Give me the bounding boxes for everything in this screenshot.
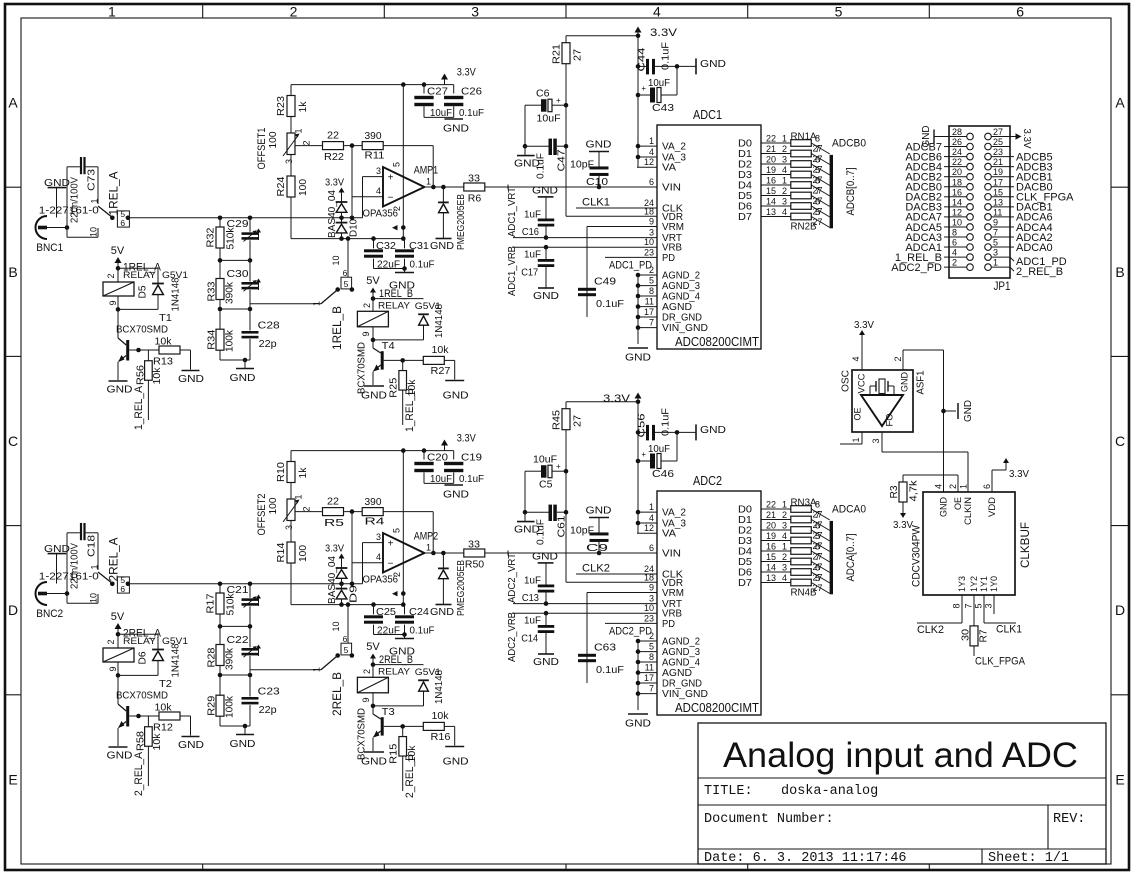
- svg-text:5: 5: [344, 645, 349, 655]
- svg-text:10: 10: [89, 227, 99, 237]
- svg-text:9: 9: [649, 583, 654, 593]
- svg-text:3: 3: [871, 438, 881, 443]
- svg-text:220n/100V: 220n/100V: [69, 177, 81, 223]
- svg-text:10uF: 10uF: [648, 443, 670, 455]
- svg-text:6: 6: [649, 177, 654, 187]
- svg-text:22: 22: [327, 496, 339, 508]
- svg-text:CLK2: CLK2: [582, 563, 610, 575]
- svg-text:C24: C24: [409, 606, 429, 618]
- svg-text:4: 4: [782, 573, 787, 583]
- svg-text:7: 7: [815, 552, 820, 562]
- svg-text:RN4B: RN4B: [791, 587, 817, 599]
- svg-text:390: 390: [365, 496, 382, 508]
- svg-text:1k: 1k: [297, 101, 309, 113]
- svg-text:1N4148: 1N4148: [170, 277, 182, 311]
- svg-text:33: 33: [468, 539, 480, 551]
- svg-text:C32: C32: [376, 240, 396, 252]
- svg-text:VA: VA: [662, 162, 676, 174]
- svg-text:CLKBUF: CLKBUF: [1020, 522, 1032, 568]
- svg-text:1: 1: [782, 542, 787, 552]
- svg-text:7: 7: [964, 603, 974, 608]
- svg-text:23: 23: [993, 147, 1003, 157]
- svg-text:+: +: [388, 173, 394, 184]
- svg-text:T1: T1: [159, 312, 172, 324]
- svg-text:390k: 390k: [224, 647, 236, 670]
- svg-text:ADC1_VRB: ADC1_VRB: [506, 246, 518, 296]
- svg-text:ADC2: ADC2: [693, 473, 722, 488]
- svg-text:6: 6: [649, 543, 654, 553]
- svg-text:6: 6: [982, 484, 992, 489]
- svg-text:0.1uF: 0.1uF: [660, 408, 672, 436]
- svg-text:100: 100: [297, 545, 309, 562]
- svg-text:5V: 5V: [111, 611, 125, 623]
- svg-text:RELAY: RELAY: [378, 666, 411, 677]
- svg-text:R12: R12: [153, 722, 173, 734]
- svg-text:1N4148: 1N4148: [170, 643, 182, 677]
- svg-text:3.3V: 3.3V: [325, 543, 344, 555]
- svg-text:CLK2: CLK2: [917, 624, 944, 636]
- svg-text:2: 2: [290, 4, 298, 20]
- svg-text:18: 18: [644, 206, 654, 216]
- svg-text:R34: R34: [206, 330, 218, 350]
- svg-text:ADC1_PD: ADC1_PD: [609, 260, 652, 272]
- svg-text:9: 9: [649, 217, 654, 227]
- svg-text:+: +: [641, 450, 646, 459]
- svg-text:6: 6: [343, 268, 348, 278]
- svg-text:1_REL_B: 1_REL_B: [404, 388, 416, 432]
- svg-text:14: 14: [952, 197, 962, 207]
- svg-text:A: A: [8, 95, 18, 111]
- svg-text:GND: GND: [230, 372, 256, 384]
- svg-text:2: 2: [893, 356, 903, 361]
- svg-text:2REL_A: 2REL_A: [107, 538, 121, 582]
- svg-text:0.1uF: 0.1uF: [459, 107, 484, 119]
- svg-text:10: 10: [89, 593, 99, 603]
- svg-text:10k: 10k: [432, 344, 450, 356]
- svg-text:12: 12: [952, 207, 962, 217]
- svg-text:1uF: 1uF: [524, 249, 541, 261]
- svg-text:1REL_A: 1REL_A: [107, 172, 121, 216]
- svg-text:7: 7: [993, 228, 998, 238]
- svg-text:5: 5: [649, 276, 654, 286]
- svg-text:3: 3: [782, 521, 787, 531]
- svg-text:4: 4: [649, 147, 654, 157]
- svg-text:GND: GND: [443, 123, 469, 135]
- svg-text:BAS40_04: BAS40_04: [326, 556, 338, 604]
- svg-text:4: 4: [376, 552, 381, 562]
- svg-text:8: 8: [649, 652, 654, 662]
- svg-text:−: −: [388, 559, 394, 570]
- svg-text:C5: C5: [539, 479, 553, 491]
- svg-text:4: 4: [782, 531, 787, 541]
- svg-text:ADCA0: ADCA0: [832, 504, 866, 516]
- svg-text:T2: T2: [159, 678, 172, 690]
- svg-text:10: 10: [331, 256, 341, 266]
- svg-text:A: A: [1115, 95, 1125, 111]
- svg-text:GND: GND: [962, 400, 974, 422]
- svg-text:27: 27: [572, 415, 584, 427]
- svg-text:2: 2: [952, 258, 957, 268]
- svg-text:Document Number:: Document Number:: [704, 812, 834, 827]
- svg-text:2: 2: [106, 273, 116, 278]
- svg-text:3: 3: [649, 594, 654, 604]
- svg-text:13: 13: [766, 573, 776, 583]
- svg-text:15: 15: [766, 552, 776, 562]
- svg-text:BCX70SMD: BCX70SMD: [116, 324, 168, 336]
- svg-text:7: 7: [649, 684, 654, 694]
- svg-text:C23: C23: [258, 686, 280, 698]
- svg-text:BNC2: BNC2: [36, 608, 63, 620]
- svg-text:1: 1: [649, 502, 654, 512]
- svg-text:10pF: 10pF: [570, 159, 594, 171]
- svg-text:6: 6: [815, 155, 820, 165]
- svg-text:16: 16: [766, 542, 776, 552]
- svg-text:1uF: 1uF: [524, 209, 541, 221]
- svg-text:18: 18: [644, 572, 654, 582]
- svg-text:3: 3: [649, 228, 654, 238]
- svg-text:R28: R28: [206, 647, 218, 667]
- svg-text:28: 28: [952, 127, 962, 137]
- svg-text:3.3V: 3.3V: [457, 66, 477, 78]
- svg-text:10uF: 10uF: [430, 107, 452, 119]
- svg-text:C49: C49: [594, 276, 616, 288]
- svg-text:BAS40_04: BAS40_04: [326, 190, 338, 238]
- svg-text:16: 16: [766, 176, 776, 186]
- svg-text:22p: 22p: [259, 338, 277, 350]
- svg-text:6: 6: [120, 584, 125, 594]
- svg-text:5: 5: [815, 165, 820, 175]
- svg-text:R13: R13: [153, 356, 173, 368]
- svg-text:390: 390: [365, 130, 382, 142]
- svg-text:3: 3: [376, 166, 381, 176]
- svg-text:VIN_GND: VIN_GND: [662, 322, 708, 334]
- svg-text:23: 23: [644, 613, 654, 623]
- svg-text:22uF: 22uF: [377, 259, 400, 271]
- svg-text:19: 19: [993, 167, 1003, 177]
- svg-text:2: 2: [362, 669, 372, 674]
- svg-text:22: 22: [952, 157, 962, 167]
- svg-text:6: 6: [120, 218, 125, 228]
- svg-text:30: 30: [960, 629, 972, 641]
- svg-text:C28: C28: [258, 320, 280, 332]
- svg-text:GND: GND: [443, 389, 469, 401]
- svg-text:19: 19: [766, 531, 776, 541]
- svg-text:PMEG2005EB: PMEG2005EB: [455, 194, 467, 250]
- svg-text:2_REL_B: 2_REL_B: [404, 754, 416, 798]
- svg-text:3: 3: [984, 603, 994, 608]
- svg-text:0.1uF: 0.1uF: [535, 153, 547, 179]
- svg-text:17: 17: [993, 177, 1003, 187]
- svg-text:R29: R29: [206, 696, 218, 716]
- svg-text:2: 2: [302, 506, 312, 511]
- svg-text:C19: C19: [461, 452, 482, 464]
- svg-text:1Y3: 1Y3: [957, 576, 968, 592]
- svg-text:17: 17: [644, 673, 654, 683]
- svg-text:3: 3: [376, 532, 381, 542]
- svg-text:6: 6: [343, 634, 348, 644]
- svg-text:9: 9: [108, 666, 118, 671]
- svg-text:D: D: [1115, 602, 1125, 618]
- svg-text:GND: GND: [107, 384, 133, 396]
- svg-text:RN3A: RN3A: [791, 497, 817, 509]
- svg-text:2: 2: [782, 510, 787, 520]
- svg-text:C43: C43: [652, 102, 674, 114]
- svg-text:510k: 510k: [225, 227, 237, 250]
- svg-text:0.1uF: 0.1uF: [410, 625, 435, 637]
- svg-text:R7: R7: [978, 629, 990, 642]
- svg-text:5: 5: [835, 4, 843, 20]
- svg-text:CLKIN: CLKIN: [963, 497, 974, 525]
- svg-text:21: 21: [993, 157, 1003, 167]
- svg-text:2REL_B: 2REL_B: [330, 672, 344, 716]
- svg-text:C14: C14: [521, 632, 538, 644]
- svg-text:6: 6: [1016, 4, 1024, 20]
- svg-text:12: 12: [644, 523, 654, 533]
- svg-text:R4: R4: [365, 516, 385, 528]
- svg-text:3.3V: 3.3V: [325, 177, 344, 189]
- svg-text:14: 14: [766, 197, 776, 207]
- svg-text:RELAY: RELAY: [123, 270, 157, 281]
- svg-text:10uF: 10uF: [648, 77, 670, 89]
- svg-text:R24: R24: [275, 176, 287, 196]
- svg-text:100k: 100k: [224, 329, 236, 352]
- svg-text:18: 18: [952, 177, 962, 187]
- svg-text:27: 27: [572, 49, 584, 61]
- svg-text:PMEG2005EB: PMEG2005EB: [455, 560, 467, 616]
- svg-text:R27: R27: [431, 365, 451, 377]
- svg-text:GND: GND: [939, 497, 950, 517]
- svg-text:3: 3: [471, 4, 479, 20]
- svg-text:ADCA0: ADCA0: [1016, 242, 1053, 254]
- svg-text:4: 4: [782, 207, 787, 217]
- svg-text:33: 33: [468, 173, 480, 185]
- svg-text:3.3V: 3.3V: [457, 432, 477, 444]
- svg-text:B: B: [1115, 264, 1124, 280]
- svg-text:PD: PD: [662, 252, 675, 264]
- svg-text:RELAY: RELAY: [378, 300, 411, 311]
- svg-text:1: 1: [782, 500, 787, 510]
- svg-text:C46: C46: [652, 468, 674, 480]
- svg-text:22: 22: [766, 134, 776, 144]
- svg-text:C73: C73: [86, 169, 98, 191]
- svg-text:GND: GND: [361, 756, 387, 768]
- svg-text:GND: GND: [361, 390, 387, 402]
- svg-text:GND: GND: [700, 58, 726, 70]
- svg-text:8: 8: [952, 603, 962, 608]
- svg-text:C27: C27: [427, 86, 448, 98]
- svg-text:1: 1: [294, 494, 304, 499]
- svg-text:100: 100: [267, 131, 279, 148]
- svg-text:BCX70SMD: BCX70SMD: [116, 690, 168, 702]
- svg-text:C18: C18: [86, 535, 98, 557]
- svg-text:3.3V: 3.3V: [650, 27, 678, 39]
- svg-text:2: 2: [302, 140, 312, 145]
- svg-text:4: 4: [952, 248, 957, 258]
- svg-text:5: 5: [344, 279, 349, 289]
- svg-text:2: 2: [948, 484, 958, 489]
- svg-text:5: 5: [815, 573, 820, 583]
- svg-text:6: 6: [815, 197, 820, 207]
- svg-text:D6: D6: [137, 651, 149, 664]
- svg-text:10k: 10k: [151, 733, 163, 751]
- svg-text:R45: R45: [551, 410, 563, 430]
- svg-text:D9: D9: [348, 585, 360, 603]
- svg-text:GND: GND: [625, 352, 651, 364]
- svg-text:JP1: JP1: [994, 279, 1011, 293]
- svg-text:GND: GND: [443, 755, 469, 767]
- svg-text:4: 4: [376, 186, 381, 196]
- svg-text:10k: 10k: [432, 710, 450, 722]
- svg-text:R32: R32: [205, 227, 217, 247]
- svg-text:1: 1: [782, 134, 787, 144]
- svg-text:ADC1: ADC1: [693, 107, 722, 122]
- svg-text:4: 4: [934, 484, 944, 489]
- svg-text:GND: GND: [625, 718, 651, 730]
- svg-text:1: 1: [993, 258, 998, 268]
- svg-text:1N4148: 1N4148: [433, 304, 445, 338]
- svg-text:C: C: [1115, 433, 1125, 449]
- svg-text:5: 5: [392, 162, 402, 167]
- svg-text:11: 11: [993, 207, 1002, 217]
- svg-text:doska-analog: doska-analog: [781, 784, 878, 799]
- svg-text:+: +: [556, 96, 561, 105]
- svg-text:0.1uF: 0.1uF: [596, 664, 624, 676]
- svg-text:T4: T4: [382, 340, 395, 352]
- svg-text:2: 2: [782, 144, 787, 154]
- svg-text:R10: R10: [275, 462, 287, 482]
- svg-text:1: 1: [649, 136, 654, 146]
- svg-text:8: 8: [952, 228, 957, 238]
- svg-text:−: −: [388, 193, 394, 204]
- svg-text:9: 9: [361, 331, 371, 336]
- svg-text:9: 9: [108, 300, 118, 305]
- svg-text:22p: 22p: [259, 704, 277, 716]
- svg-text:10pF: 10pF: [570, 525, 594, 537]
- svg-text:23: 23: [644, 247, 654, 257]
- svg-text:C16: C16: [522, 226, 539, 238]
- svg-text:RELAY: RELAY: [123, 636, 157, 647]
- svg-text:7: 7: [815, 144, 820, 154]
- svg-text:1k: 1k: [297, 467, 309, 479]
- svg-text:1uF: 1uF: [524, 615, 541, 627]
- svg-text:22uF: 22uF: [377, 625, 400, 637]
- svg-text:VIN: VIN: [662, 548, 681, 560]
- svg-text:R21: R21: [551, 44, 563, 64]
- svg-text:10k: 10k: [151, 367, 163, 385]
- svg-text:3: 3: [284, 159, 294, 164]
- svg-text:2REL_B: 2REL_B: [379, 654, 413, 666]
- svg-text:R5: R5: [324, 517, 344, 529]
- svg-text:GND: GND: [920, 125, 932, 147]
- svg-text:2: 2: [106, 639, 116, 644]
- svg-text:4: 4: [782, 165, 787, 175]
- svg-text:C63: C63: [594, 642, 616, 654]
- svg-text:6: 6: [815, 521, 820, 531]
- svg-text:27: 27: [993, 127, 1003, 137]
- svg-text:15: 15: [766, 186, 776, 196]
- svg-text:C30: C30: [227, 268, 249, 280]
- svg-text:4: 4: [649, 513, 654, 523]
- svg-text:VDD: VDD: [987, 497, 998, 517]
- svg-text:13: 13: [766, 207, 776, 217]
- svg-text:20: 20: [766, 521, 776, 531]
- svg-text:VIN: VIN: [662, 182, 681, 194]
- svg-text:ADC2_PD: ADC2_PD: [609, 626, 652, 638]
- svg-text:5V: 5V: [366, 275, 380, 287]
- svg-text:VCC: VCC: [857, 373, 868, 393]
- svg-text:GND: GND: [178, 373, 204, 385]
- svg-text:10: 10: [331, 622, 341, 632]
- svg-text:0.1uF: 0.1uF: [459, 473, 484, 485]
- svg-text:OPA356: OPA356: [363, 208, 399, 220]
- svg-text:5: 5: [974, 603, 984, 608]
- svg-text:GND: GND: [107, 750, 133, 762]
- svg-text:C56: C56: [636, 413, 648, 437]
- svg-text:ADC2_PD: ADC2_PD: [891, 262, 942, 274]
- svg-text:C25: C25: [376, 606, 396, 618]
- svg-text:10: 10: [644, 603, 654, 613]
- svg-text:1: 1: [90, 564, 100, 569]
- svg-text:+: +: [641, 84, 646, 93]
- svg-text:ADCB0: ADCB0: [832, 138, 866, 150]
- svg-text:+: +: [388, 539, 394, 550]
- svg-text:D7: D7: [738, 211, 752, 223]
- svg-text:20: 20: [952, 167, 962, 177]
- svg-text:10: 10: [644, 237, 654, 247]
- svg-text:5: 5: [815, 531, 820, 541]
- svg-text:R33: R33: [206, 281, 218, 301]
- svg-text:C22: C22: [227, 634, 249, 646]
- svg-text:OSC: OSC: [840, 370, 852, 392]
- svg-text:D: D: [8, 602, 18, 618]
- svg-text:GND: GND: [532, 551, 558, 563]
- svg-text:10uF: 10uF: [430, 473, 452, 485]
- svg-text:D10: D10: [348, 219, 360, 237]
- svg-text:VIN_GND: VIN_GND: [662, 688, 708, 700]
- svg-text:390k: 390k: [224, 281, 236, 304]
- svg-text:12: 12: [644, 157, 654, 167]
- svg-text:GND: GND: [586, 505, 612, 517]
- svg-text:R23: R23: [275, 96, 287, 116]
- svg-text:R56: R56: [134, 365, 146, 385]
- svg-text:E: E: [8, 771, 17, 787]
- svg-text:1: 1: [782, 176, 787, 186]
- svg-text:5V: 5V: [366, 641, 380, 653]
- svg-text:6: 6: [952, 238, 957, 248]
- svg-text:R50: R50: [465, 559, 484, 571]
- svg-text:3.3V: 3.3V: [854, 319, 874, 331]
- svg-text:16: 16: [952, 187, 962, 197]
- svg-text:R3: R3: [888, 485, 900, 498]
- svg-text:ADC08200CIMT: ADC08200CIMT: [675, 701, 759, 715]
- svg-text:ADCA[0..7]: ADCA[0..7]: [845, 534, 857, 582]
- svg-text:ADC2_VRB: ADC2_VRB: [506, 612, 518, 662]
- svg-text:4: 4: [653, 4, 661, 20]
- svg-text:15: 15: [993, 187, 1003, 197]
- svg-text:3.3V: 3.3V: [603, 393, 631, 405]
- svg-text:GND: GND: [700, 424, 726, 436]
- svg-text:C6: C6: [536, 88, 550, 100]
- svg-text:CLK1: CLK1: [582, 197, 610, 209]
- svg-text:1: 1: [426, 543, 431, 553]
- svg-text:4: 4: [851, 356, 861, 361]
- svg-text:9: 9: [361, 697, 371, 702]
- svg-text:10uF: 10uF: [533, 454, 557, 466]
- svg-text:OE: OE: [853, 408, 864, 421]
- svg-text:8: 8: [815, 542, 820, 552]
- svg-text:GND: GND: [430, 240, 454, 252]
- svg-text:C20: C20: [427, 452, 448, 464]
